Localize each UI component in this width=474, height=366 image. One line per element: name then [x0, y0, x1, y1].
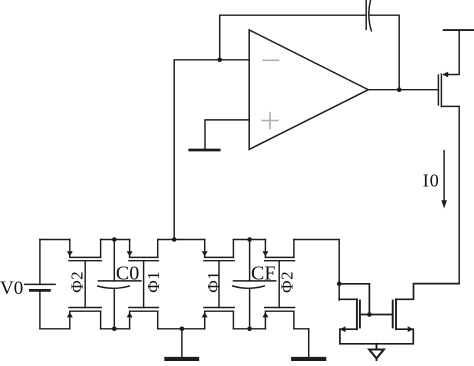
node C0 bottom — [112, 327, 117, 332]
node CF top — [247, 237, 252, 242]
ground G1 (op-amp + input) — [190, 149, 220, 152]
transistor M1 source arrow — [442, 72, 448, 78]
transistor M3 channel bar — [395, 299, 397, 329]
ground G3 (bottom right of ladder) — [308, 329, 310, 357]
capacitor CF_fb curved plate — [369, 0, 372, 31]
node ground tap — [180, 327, 185, 332]
wire top rail seg2 — [101, 239, 130, 241]
transistor M3 source wire — [396, 328, 412, 330]
svg-text:V0: V0 — [0, 278, 23, 299]
wire top rail seg4 — [233, 239, 265, 241]
switch S4 bottom transistor — [262, 308, 294, 329]
wire diode connection — [339, 284, 369, 315]
capacitor CF_fb straight plate — [365, 0, 367, 29]
wire non-inverting input — [205, 120, 249, 149]
transistor M2 channel bar — [356, 299, 358, 329]
node op-amp tap — [172, 237, 177, 242]
node gate junction — [367, 312, 372, 317]
wire top rail seg1 — [40, 239, 70, 241]
transistor M2 source arrow — [340, 326, 346, 332]
switch S4 (phi2) top transistor — [262, 240, 294, 261]
op-amp plus sign — [262, 113, 278, 129]
wire inverting input — [174, 60, 249, 240]
switch S1 gate stem — [84, 261, 86, 308]
wire mirror rail — [340, 329, 413, 344]
wire bottom rail seg5 — [294, 328, 309, 330]
wire bottom rail seg4 — [233, 328, 265, 330]
wire feedback top horizontal right — [369, 15, 399, 90]
transistor M2 gate bar — [359, 301, 361, 328]
node inverting-input junction — [217, 58, 222, 63]
transistor M2 source wire — [340, 328, 357, 330]
svg-text:Φ1: Φ1 — [144, 271, 163, 293]
op-amp U1 — [249, 30, 368, 149]
transistor M1 source wire — [444, 30, 459, 75]
op-amp minus sign — [263, 59, 279, 61]
svg-text:I0: I0 — [423, 171, 440, 191]
switch S3 gate stem — [218, 261, 220, 308]
switch S2 gate stem — [143, 261, 145, 308]
wire bottom rail seg1 — [40, 328, 70, 330]
svg-text:Φ2: Φ2 — [278, 271, 297, 293]
ground G2 (bottom middle) — [181, 329, 183, 357]
node mirror input junction — [337, 282, 342, 287]
capacitor CF — [233, 240, 276, 329]
node feedback-output junction — [397, 87, 402, 92]
switch S3 bottom transistor — [202, 308, 234, 329]
switch S1 (phi2) top transistor — [67, 240, 102, 261]
transistor M1 (PMOS) gate bar — [437, 75, 439, 105]
svg-text:Φ1: Φ1 — [204, 271, 223, 293]
ground G4 (mirror, open triangle) — [376, 344, 378, 350]
svg-text:CF: CF — [251, 263, 275, 285]
transistor M3 source arrow — [408, 326, 414, 332]
transistor M3 (right NMOS) gate bar — [392, 301, 394, 328]
transistor M2 (left NMOS) drain wire — [339, 298, 357, 300]
switch S2 (phi1) top transistor — [127, 240, 159, 261]
wire chain to mirror — [294, 240, 339, 301]
wire top rail seg3 — [158, 239, 205, 241]
wire bottom rail seg3 — [158, 328, 205, 330]
switch S4 gate stem — [278, 261, 280, 308]
transistor M3 drain wire — [396, 284, 459, 300]
wire bottom rail seg2 — [101, 328, 130, 330]
wire mirror gates — [360, 314, 393, 316]
wire feedback top horizontal left — [220, 15, 367, 60]
wire op-amp output — [368, 89, 438, 91]
capacitor C0 — [98, 240, 141, 329]
voltage source V0 — [39, 240, 41, 285]
node C0 top — [112, 237, 117, 242]
svg-text:Φ2: Φ2 — [67, 271, 86, 293]
switch S2 bottom transistor — [127, 308, 159, 329]
transistor M1 drain wire — [441, 106, 459, 283]
node CF bottom — [247, 327, 252, 332]
svg-text:C0: C0 — [116, 263, 139, 285]
VDD rail — [444, 29, 474, 31]
I0 arrow — [443, 151, 445, 203]
switch S3 (phi1) top transistor — [202, 240, 234, 261]
switch S1 bottom transistor — [67, 308, 102, 329]
transistor M1 channel bar — [440, 74, 442, 107]
